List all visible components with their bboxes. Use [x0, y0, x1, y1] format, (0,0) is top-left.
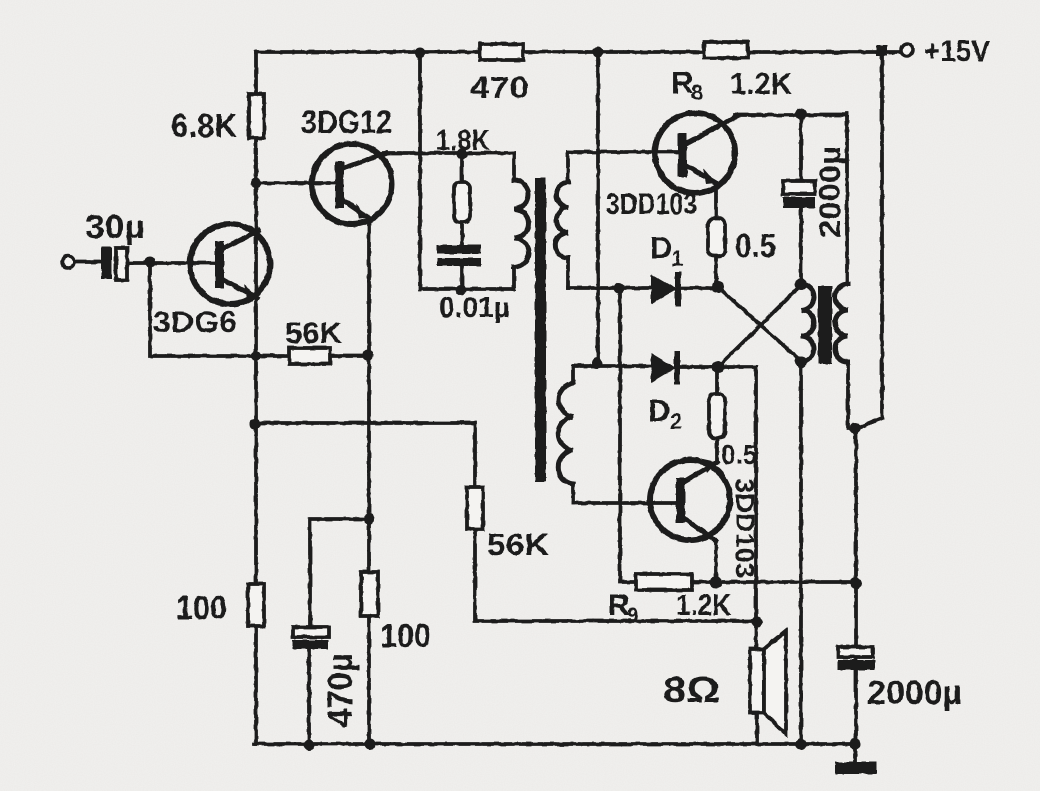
wire Q2 emitter column [367, 218, 371, 744]
svg-text:100: 100 [176, 589, 227, 626]
node collector cap [796, 109, 807, 120]
capacitor 2000µ bottom [838, 647, 873, 657]
node jog [850, 423, 861, 434]
wire cross diagonal D1 [718, 287, 801, 361]
wire input bias down [150, 263, 368, 356]
resistor 100 left [248, 584, 264, 626]
wire tank left [420, 52, 514, 290]
svg-text:6.8K: 6.8K [171, 107, 237, 144]
node emitter R9 [710, 576, 722, 588]
terminal +15V [901, 44, 913, 56]
svg-text:30µ: 30µ [85, 208, 145, 245]
capacitor 2000µ top [799, 114, 803, 284]
resistor 1.8K [460, 154, 464, 247]
node 1.8K top [457, 149, 468, 160]
svg-text:3DG6: 3DG6 [153, 306, 237, 339]
svg-text:3DD103: 3DD103 [606, 188, 697, 221]
svg-text:2: 2 [670, 409, 682, 434]
wire left column [254, 52, 258, 744]
svg-text:8: 8 [691, 80, 703, 105]
wire input lead [74, 260, 101, 264]
wire 470µ branch [309, 519, 369, 745]
node centre bottom [592, 358, 603, 369]
node R9 right [850, 577, 862, 589]
capacitor 0.01µ [437, 245, 481, 254]
wire +15V drop [856, 50, 882, 744]
resistor 470 [480, 44, 523, 60]
transformer T2 right winding [847, 114, 848, 428]
transformer T1 core [535, 178, 546, 482]
wire D2 row [573, 364, 651, 368]
wire Q2 collector row [384, 151, 514, 155]
svg-text:100: 100 [380, 617, 431, 654]
resistor 0.5 top [714, 183, 718, 287]
wire top supply rail [256, 50, 905, 54]
wire T1 top to Q3 base [568, 150, 679, 154]
transistor Q3 3DD103 top [655, 113, 735, 193]
node D1 cathode junction [712, 281, 724, 293]
node 470µ tee [364, 514, 375, 525]
resistor 56K horizontal [289, 348, 330, 364]
transistor Q1 3DG6 [190, 224, 270, 304]
wire T1 top winding bottom to D1 [568, 286, 651, 290]
resistor R9 1.2K [636, 574, 692, 590]
transistor Q2 3DG12 [312, 144, 392, 224]
svg-text:0.5: 0.5 [721, 439, 757, 470]
node +15V branch [876, 45, 887, 56]
speaker 8 ohm [750, 649, 764, 713]
wire R9 column [620, 289, 640, 582]
node D1 anode [614, 283, 625, 294]
transformer T2 core [818, 286, 832, 364]
wire T2 left bottom down [799, 362, 803, 744]
wire Q3 collector row [735, 113, 847, 117]
node rail T2 [796, 739, 807, 750]
node rail 470µ [304, 740, 315, 751]
transformer T1 feedback winding [512, 153, 516, 289]
svg-text:1.2K: 1.2K [676, 589, 731, 622]
resistor 0.5 bottom [715, 367, 719, 463]
node D2 cathode junction [712, 361, 724, 373]
node centre rail [593, 47, 604, 58]
node rail ground [850, 739, 861, 750]
transformer T1 primary bottom winding [571, 366, 575, 503]
transistor Q4 3DD103 bottom [650, 460, 730, 540]
resistor 100 right [361, 572, 378, 616]
node 56K junction [363, 350, 374, 361]
wire cap to base [127, 261, 218, 265]
wire centre column [596, 52, 600, 364]
svg-text:3DG12: 3DG12 [301, 104, 392, 140]
svg-text:+15V: +15V [924, 35, 990, 68]
svg-text:56K: 56K [487, 527, 550, 562]
node rail 100 [365, 739, 376, 750]
resistor 6.8K [249, 94, 264, 138]
node 0.01µ bottom [456, 285, 467, 296]
capacitor 30µ [101, 247, 112, 279]
svg-text:D: D [650, 230, 672, 265]
transformer T2 left winding [801, 284, 814, 362]
diode D1 [651, 274, 677, 304]
resistor 56K vertical [467, 487, 483, 529]
node speaker top [752, 617, 763, 628]
capacitor 470µ [293, 627, 329, 637]
node input [145, 257, 156, 268]
svg-text:1.2K: 1.2K [730, 66, 793, 101]
node T2 left bottom [795, 356, 807, 368]
wire cross diagonal D2 [718, 285, 801, 367]
wire bottom ground rail [254, 742, 858, 746]
transformer T1 primary top winding [566, 152, 570, 288]
svg-text:2000µ: 2000µ [814, 146, 847, 238]
wire bias row y423 [255, 423, 757, 621]
svg-text:0.01µ: 0.01µ [439, 292, 510, 324]
wire Q2 base [256, 181, 338, 185]
wire T1 bottom to Q4 base [573, 501, 679, 505]
svg-text:56K: 56K [285, 317, 342, 350]
node T2 left top [795, 278, 807, 290]
svg-text:9: 9 [627, 604, 639, 627]
svg-text:8Ω: 8Ω [663, 669, 720, 710]
wire speaker column [756, 367, 757, 744]
ground [853, 744, 857, 762]
svg-text:470: 470 [470, 70, 529, 105]
node Q2 base tee [251, 178, 262, 189]
node bias tee left [250, 419, 261, 430]
svg-text:1: 1 [671, 246, 683, 271]
input terminal [62, 256, 74, 268]
node tank rail [415, 48, 426, 59]
diode D2 [651, 353, 676, 383]
svg-text:2000µ: 2000µ [867, 674, 962, 712]
resistor R8 1.2K [704, 42, 748, 58]
svg-text:470µ: 470µ [321, 653, 360, 727]
wire Q4 collector down [714, 541, 718, 582]
svg-text:0.5: 0.5 [735, 227, 776, 264]
svg-text:D: D [648, 393, 670, 428]
node Q1 emitter junction [251, 351, 261, 361]
